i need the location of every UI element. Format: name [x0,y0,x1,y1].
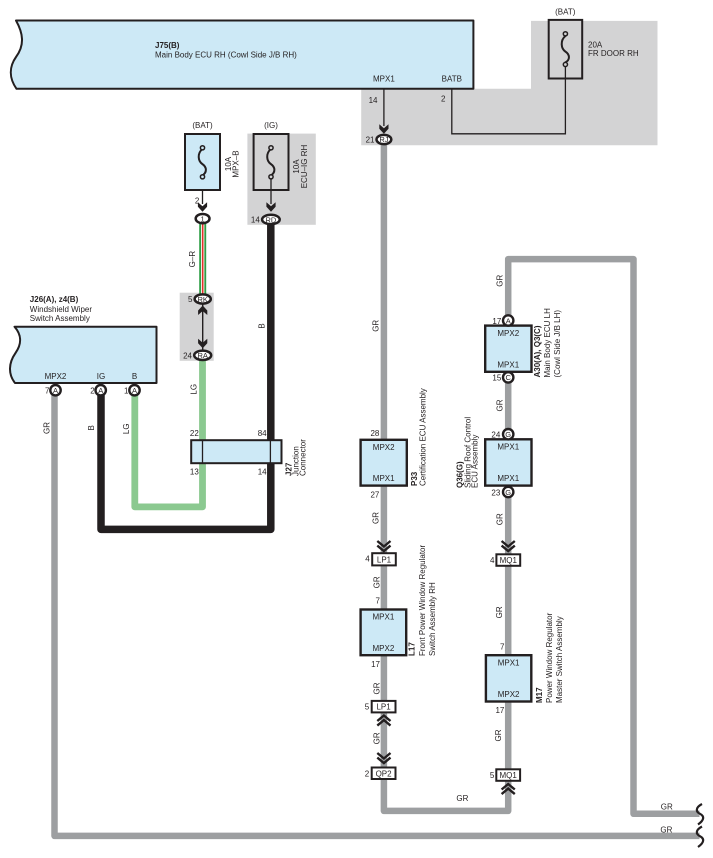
svg-text:14: 14 [369,96,378,105]
svg-text:Connector: Connector [299,439,308,476]
svg-text:MPX1: MPX1 [373,613,395,622]
svg-text:LG: LG [190,384,199,395]
arrow up to RK [198,306,207,316]
connector box LP1 pin 4 [372,553,396,565]
wire G-R: striped wire from fuse oval 1 to RK [199,222,206,296]
svg-text:22: 22 [190,429,199,438]
switch box M17 Power Window Regulator Master Switch Assembly [486,655,531,701]
connector box MQ1 pin 4 [496,554,520,566]
svg-text:17: 17 [495,706,504,715]
svg-text:L17: L17 [408,642,417,656]
svg-text:14: 14 [258,467,267,476]
wire LG: from RA oval through J27 to wiper B pin 1 [135,358,203,507]
connector oval RK [195,294,211,303]
wire B: from RD fuse oval through J27 to wiper IG pin 2 [101,222,271,529]
connector box MQ1 pin 5 [496,769,520,781]
wire: thin fuse MPX-B stem to oval 1 [202,179,204,204]
svg-text:5: 5 [490,771,495,780]
arrow down to oval RD [266,202,275,212]
connector circle C pin 15 A30 [503,372,513,382]
svg-text:MPX1: MPX1 [373,474,395,483]
svg-text:(BAT): (BAT) [192,121,213,130]
svg-text:GR: GR [373,732,382,744]
svg-text:2: 2 [441,95,446,104]
svg-text:GR: GR [495,399,504,411]
chevron double down above MQ1 pin 4 [502,541,515,551]
wire GR: main multiplex wire RJ to QP2 to MQ1 loop, A30 loop, to right edge [384,143,700,814]
svg-text:MPX1: MPX1 [497,360,519,369]
svg-text:MQ1: MQ1 [500,556,518,565]
svg-text:MPX1: MPX1 [373,75,395,84]
svg-text:84: 84 [258,429,267,438]
connector circle G pin 23 Q36 [503,487,513,497]
svg-text:2: 2 [90,386,95,395]
connector box LP1 pin 5 [372,701,396,713]
chevron double up below LP1 pin 5 [377,716,390,726]
svg-text:G: G [505,430,511,439]
connector oval 1 [196,214,210,223]
svg-text:GR: GR [456,794,468,803]
wire: thin from J75 BATB pin 2 to 20A FR DOOR RH fuse [452,64,566,134]
svg-text:13: 13 [190,467,199,476]
svg-text:5: 5 [365,703,370,712]
svg-text:28: 28 [370,429,379,438]
svg-text:27: 27 [370,490,379,499]
connector circle G pin 24 Q36 [503,429,513,439]
svg-text:MPX–B: MPX–B [232,150,241,177]
connector oval RJ [377,135,392,144]
svg-text:GR: GR [661,802,673,811]
svg-text:15: 15 [492,374,501,383]
switch box J26(A), z4(B) Windshield Wiper Switch Assembly [10,327,157,383]
svg-text:GR: GR [495,274,504,286]
svg-text:A: A [132,386,137,395]
break squiggle lower right [697,827,703,848]
chevron double down above LP1 pin 4 [377,541,390,551]
arrow down to RJ [379,124,388,134]
break squiggle upper right [697,804,703,825]
svg-text:5: 5 [188,295,193,304]
svg-text:GR: GR [43,422,52,434]
svg-text:MPX2: MPX2 [373,443,395,452]
wire label GR L17-LP1 [373,682,382,694]
connector circle A pin 2 wiper [96,385,106,395]
svg-text:BATB: BATB [442,75,462,84]
svg-text:C: C [505,373,511,382]
svg-text:(Cowl Side J/B LH): (Cowl Side J/B LH) [553,310,562,378]
svg-text:7: 7 [500,643,505,652]
chevron double down above QP2 [377,753,390,763]
arrow down to oval 1 [198,202,207,212]
svg-text:RK: RK [197,295,207,304]
svg-text:Main Body ECU RH (Cowl Side J/: Main Body ECU RH (Cowl Side J/B RH) [155,51,297,60]
svg-text:M17: M17 [535,687,544,703]
svg-text:17: 17 [371,660,380,669]
svg-text:1: 1 [124,386,129,395]
svg-text:G: G [505,488,511,497]
svg-text:MQ1: MQ1 [500,771,518,780]
svg-text:QP2: QP2 [376,769,393,778]
svg-text:7: 7 [376,597,381,606]
wire label GR RJ-P33 [372,320,381,332]
svg-text:Windshield Wiper: Windshield Wiper [30,305,93,314]
gray panel: ECU-IG RH fuse block [247,134,315,225]
svg-text:Master Switch Assembly: Master Switch Assembly [555,616,564,703]
wire: thin fuse ECU-IG stem to oval RD [270,179,272,204]
svg-text:B: B [87,425,96,430]
svg-text:GR: GR [495,513,504,525]
svg-text:1: 1 [201,214,205,223]
wire GR: windshield wiper MPX2 pin 7 to bottom right edge [55,394,700,836]
svg-text:B: B [132,372,137,381]
wire label GR LP1-L17 [373,576,382,588]
svg-text:Power Window Regulator: Power Window Regulator [545,612,554,703]
svg-text:MPX2: MPX2 [498,690,520,699]
svg-text:J75(B): J75(B) [155,41,180,50]
fuse 10A MPX-B [185,134,220,190]
svg-text:MPX2: MPX2 [373,644,395,653]
ECU box A30(A), Q3(C) Main Body ECU LH [485,326,531,372]
wire label LG right [190,384,199,395]
svg-text:Certification ECU Assembly: Certification ECU Assembly [418,388,427,486]
svg-text:GR: GR [495,606,504,618]
svg-text:4: 4 [490,556,495,565]
wire label GR top right [495,274,504,286]
wire label B left [87,425,96,430]
svg-text:GR: GR [373,576,382,588]
svg-text:2: 2 [195,196,200,205]
gray panel: RK/RA junction block [180,293,214,361]
connector oval RA [194,351,211,360]
svg-text:GR: GR [494,729,503,741]
svg-text:MPX2: MPX2 [45,372,67,381]
svg-text:J26(A), z4(B): J26(A), z4(B) [30,295,79,304]
wire label GR M17-MQ1 [494,729,503,741]
svg-text:Main Body ECU LH: Main Body ECU LH [543,308,552,378]
wire label B right [258,323,267,328]
svg-text:Front Power Window Regulator: Front Power Window Regulator [418,545,427,656]
svg-text:A: A [506,316,511,325]
fuse 10A ECU-IG RH [254,134,289,190]
arrow down to RA [198,339,207,349]
junction connector J27 [191,440,281,463]
svg-text:2: 2 [365,769,370,778]
ECU box P33 Certification ECU Assembly [361,440,407,486]
svg-text:RD: RD [265,215,276,224]
svg-text:21: 21 [366,136,375,145]
connector box QP2 pin 2 [372,768,396,780]
svg-text:ECU Assembly: ECU Assembly [471,435,480,488]
wire label GR A30-Q36 [495,399,504,411]
ECU box J75(B) Main Body ECU RH [11,21,474,89]
svg-text:A: A [98,386,103,395]
wire label GR wiper [43,422,52,434]
svg-text:FR DOOR RH: FR DOOR RH [588,49,639,58]
svg-text:RA: RA [197,351,207,360]
svg-text:GR: GR [371,512,380,524]
svg-text:17: 17 [492,317,501,326]
svg-text:IG: IG [97,372,105,381]
ECU box Q36(G) Sliding Roof Control ECU Assembly [485,439,531,485]
svg-text:MPX2: MPX2 [497,329,519,338]
svg-text:MPX1: MPX1 [497,443,519,452]
svg-text:GR: GR [372,320,381,332]
svg-text:LP1: LP1 [377,555,392,564]
svg-text:LP1: LP1 [376,703,391,712]
wire label G-R [188,251,197,268]
svg-text:GR: GR [373,682,382,694]
wire label GR MQ1-M17 [495,606,504,618]
svg-text:G–R: G–R [188,251,197,268]
svg-text:GR: GR [660,826,672,835]
wire: thin RK to RA link [202,304,204,350]
svg-text:Switch Assembly: Switch Assembly [30,314,90,323]
wire label GR Q36-MQ1 [495,513,504,525]
svg-text:24: 24 [183,352,192,361]
gray panel: FR DOOR RH fuse block (top right) [361,21,657,145]
svg-text:(BAT): (BAT) [555,8,576,17]
wire: thin from J75 MPX1 pin 14 to arrow/RJ [383,89,385,126]
connector oval RD [262,215,280,224]
svg-text:14: 14 [251,216,260,225]
wire label GR LP1-QP2 [373,732,382,744]
svg-text:ECU–IG RH: ECU–IG RH [300,144,309,188]
svg-text:(IG): (IG) [264,121,278,130]
svg-text:Switch Assembly RH: Switch Assembly RH [428,582,437,656]
svg-text:MPX1: MPX1 [497,474,519,483]
svg-text:23: 23 [491,488,500,497]
svg-text:B: B [258,323,267,328]
svg-text:A30(A), Q3(C): A30(A), Q3(C) [533,325,542,377]
fuse 20A FR DOOR RH [549,20,583,79]
chevron double up below MQ1 pin 5 [502,784,515,794]
connector circle A pin 1 wiper [129,385,139,395]
wire label GR P33-LP1 [371,512,380,524]
svg-text:7: 7 [45,386,50,395]
svg-text:4: 4 [365,555,370,564]
connector circle A pin 17 A30 [503,315,513,325]
switch box L17 Front Power Window Regulator Switch Assembly RH [361,610,407,656]
svg-text:LG: LG [122,423,131,434]
svg-text:MPX1: MPX1 [498,658,520,667]
wire label LG left [122,423,131,434]
svg-text:RJ: RJ [379,135,388,144]
svg-text:24: 24 [491,431,500,440]
connector circle A pin 7 wiper [50,385,60,395]
svg-text:A: A [53,386,58,395]
